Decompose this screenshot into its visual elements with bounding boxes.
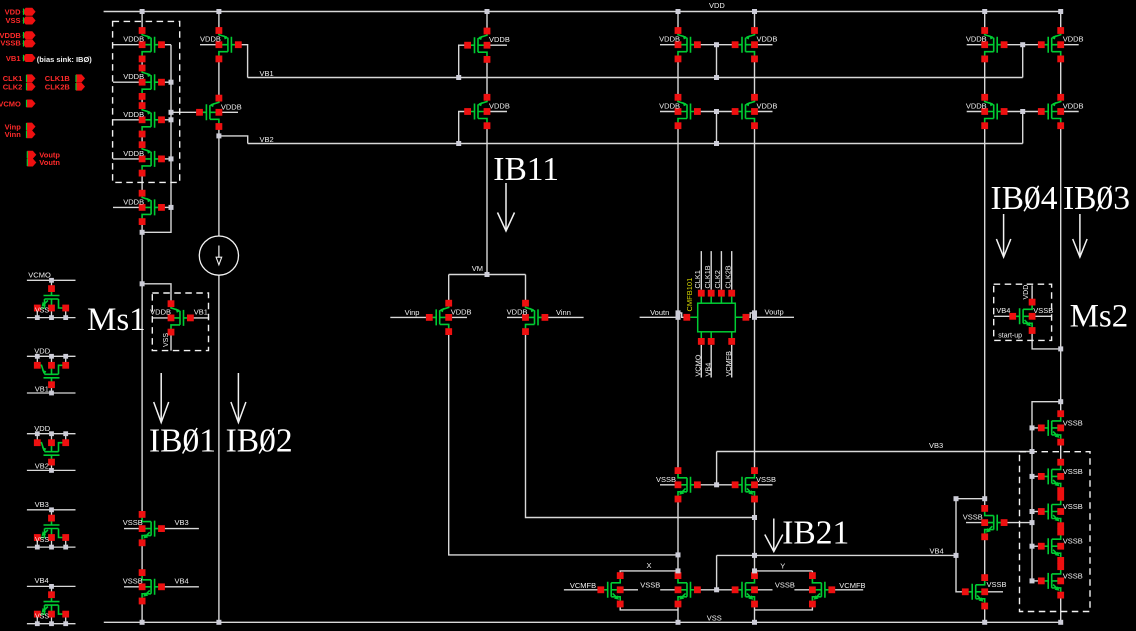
svg-text:VDDB: VDDB bbox=[123, 35, 144, 44]
svg-text:VSSB: VSSB bbox=[0, 39, 21, 48]
svg-text:VB4: VB4 bbox=[996, 306, 1010, 315]
svg-text:VDDB: VDDB bbox=[123, 72, 144, 81]
svg-text:VDD: VDD bbox=[709, 1, 725, 10]
svg-text:VSS: VSS bbox=[707, 613, 722, 622]
svg-text:CMFB101: CMFB101 bbox=[685, 278, 694, 312]
svg-text:Vinp: Vinp bbox=[405, 308, 420, 317]
svg-text:VDDB: VDDB bbox=[489, 35, 510, 44]
svg-text:IB01: IB01 bbox=[149, 423, 216, 460]
svg-text:VCMFB: VCMFB bbox=[724, 351, 733, 377]
svg-text:VDDB: VDDB bbox=[659, 102, 680, 111]
svg-text:VDDB: VDDB bbox=[221, 102, 242, 111]
svg-text:VSS: VSS bbox=[35, 308, 49, 315]
svg-text:VB3: VB3 bbox=[929, 441, 943, 450]
svg-text:CLK2B: CLK2B bbox=[723, 265, 732, 288]
svg-text:VDDB: VDDB bbox=[757, 35, 778, 44]
svg-text:(bias sink: IBØ): (bias sink: IBØ) bbox=[37, 55, 93, 64]
svg-text:IB02: IB02 bbox=[226, 423, 293, 460]
svg-text:VB1: VB1 bbox=[6, 54, 21, 63]
svg-text:IB11: IB11 bbox=[493, 151, 559, 188]
svg-text:VDDB: VDDB bbox=[489, 102, 510, 111]
svg-text:X: X bbox=[647, 561, 652, 570]
svg-text:CLK2: CLK2 bbox=[3, 82, 23, 91]
svg-text:VDDB: VDDB bbox=[659, 35, 680, 44]
svg-text:VSS: VSS bbox=[163, 333, 170, 347]
svg-text:VM: VM bbox=[472, 264, 483, 273]
svg-text:VSSB: VSSB bbox=[987, 580, 1007, 589]
svg-text:CLK2B: CLK2B bbox=[45, 82, 71, 91]
svg-text:VSSB: VSSB bbox=[1033, 306, 1053, 315]
svg-text:VSSB: VSSB bbox=[1063, 502, 1083, 511]
svg-text:VCMO: VCMO bbox=[694, 354, 703, 376]
svg-text:VSSB: VSSB bbox=[1063, 537, 1083, 546]
svg-text:start-up: start-up bbox=[998, 332, 1022, 339]
svg-text:CLK1B: CLK1B bbox=[703, 265, 712, 288]
svg-text:IB03: IB03 bbox=[1063, 180, 1130, 217]
svg-text:Y: Y bbox=[780, 561, 785, 570]
svg-text:VSSB: VSSB bbox=[775, 580, 795, 589]
svg-text:VSSB: VSSB bbox=[640, 580, 660, 589]
svg-text:VB2: VB2 bbox=[35, 462, 49, 471]
svg-text:VDDB: VDDB bbox=[507, 307, 528, 316]
svg-text:VDDB: VDDB bbox=[123, 197, 144, 206]
svg-text:VB3: VB3 bbox=[35, 500, 49, 509]
svg-text:VDDB: VDDB bbox=[1063, 35, 1084, 44]
svg-text:VB1: VB1 bbox=[260, 69, 274, 78]
svg-text:Ms2: Ms2 bbox=[1070, 299, 1129, 335]
svg-text:VB3: VB3 bbox=[175, 518, 189, 527]
svg-text:VDDB: VDDB bbox=[966, 102, 987, 111]
svg-text:VSSB: VSSB bbox=[1063, 571, 1083, 580]
svg-text:Ms1: Ms1 bbox=[87, 302, 146, 338]
svg-text:VSS: VSS bbox=[5, 16, 20, 25]
svg-text:VCMO: VCMO bbox=[28, 271, 51, 280]
svg-text:Vinn: Vinn bbox=[556, 308, 571, 317]
svg-text:VDDB: VDDB bbox=[757, 102, 778, 111]
svg-text:Voutn: Voutn bbox=[650, 308, 669, 317]
svg-text:VCMO: VCMO bbox=[0, 100, 21, 109]
svg-text:Vinn: Vinn bbox=[5, 130, 22, 139]
svg-text:VSSB: VSSB bbox=[656, 475, 676, 484]
svg-text:VCMFB: VCMFB bbox=[570, 581, 596, 590]
svg-text:VB4: VB4 bbox=[703, 363, 712, 377]
svg-text:VSSB: VSSB bbox=[1063, 467, 1083, 476]
svg-text:VDD: VDD bbox=[34, 347, 50, 356]
svg-text:VB4: VB4 bbox=[930, 546, 944, 555]
svg-text:VDDB: VDDB bbox=[150, 308, 171, 317]
svg-text:VSS: VSS bbox=[35, 614, 49, 621]
svg-text:VB4: VB4 bbox=[35, 576, 49, 585]
svg-text:VSSB: VSSB bbox=[756, 475, 776, 484]
svg-text:VDDB: VDDB bbox=[123, 149, 144, 158]
svg-text:VB1: VB1 bbox=[35, 384, 49, 393]
svg-text:CLK2: CLK2 bbox=[713, 270, 722, 288]
svg-text:VDDB: VDDB bbox=[451, 307, 472, 316]
svg-text:VDDB: VDDB bbox=[123, 110, 144, 119]
svg-text:VSS: VSS bbox=[35, 537, 49, 544]
svg-text:VDD: VDD bbox=[34, 424, 50, 433]
svg-text:VDD: VDD bbox=[1023, 285, 1030, 300]
svg-text:VB4: VB4 bbox=[175, 576, 189, 585]
svg-text:VB2: VB2 bbox=[260, 135, 274, 144]
svg-text:IB04: IB04 bbox=[991, 180, 1058, 217]
svg-text:VDDB: VDDB bbox=[200, 35, 221, 44]
svg-text:Voutn: Voutn bbox=[39, 158, 60, 167]
svg-text:VSSB: VSSB bbox=[123, 576, 143, 585]
svg-text:CLK1: CLK1 bbox=[693, 270, 702, 288]
svg-text:IB21: IB21 bbox=[782, 514, 849, 551]
svg-text:Voutp: Voutp bbox=[765, 307, 784, 316]
svg-text:VSSB: VSSB bbox=[963, 513, 983, 522]
svg-text:VSSB: VSSB bbox=[1063, 418, 1083, 427]
svg-text:VSSB: VSSB bbox=[123, 518, 143, 527]
svg-text:VCMFB: VCMFB bbox=[839, 581, 865, 590]
svg-text:VB1: VB1 bbox=[194, 307, 208, 316]
svg-text:VDDB: VDDB bbox=[1063, 102, 1084, 111]
svg-text:VDDB: VDDB bbox=[966, 35, 987, 44]
